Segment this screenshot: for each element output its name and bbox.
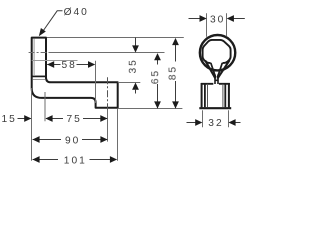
svg-text:32: 32 [208,118,223,129]
extension line left edge [31,88,33,161]
base inner bold line right [224,84,226,107]
mid reference line dashed part [29,52,49,54]
holder stem right leg [218,60,230,78]
dimension 85 [168,38,179,109]
svg-text:30: 30 [210,14,225,25]
flange inner thin line [33,79,46,81]
bottom reference line [118,108,183,110]
extension line flange right edge [44,92,46,121]
flange inner bold line [32,75,46,77]
svg-text:101: 101 [64,155,87,166]
dimension 65 [150,53,161,109]
holder slot left edge [211,63,216,77]
top reference line [47,37,184,39]
holder ring octagonal bore [203,40,231,63]
svg-text:58: 58 [62,60,77,71]
dimension 32 [187,118,241,129]
dimension 35 [128,38,139,94]
base block top edge [201,83,230,85]
holder ring outer circle (front view) [200,35,235,70]
leader line diameter 40 [42,11,63,33]
base block left edge [201,83,203,107]
extension line 75-90 [107,110,109,142]
holder neck crossbar [215,79,219,81]
extension line 101 [117,109,119,161]
outlet center line [107,77,109,109]
holder neck right [217,75,219,85]
svg-text:90: 90 [65,135,80,146]
dimension 101 [32,155,117,166]
extension line 30 right [226,13,228,36]
holder neck left [214,75,216,85]
holder slot right edge [218,63,223,77]
svg-text:65: 65 [150,69,161,84]
wall flange and elbow body outline (side view) [32,38,118,108]
base inner thin line right [222,84,224,107]
svg-text:75: 75 [67,114,82,125]
holder stem left leg [205,61,215,79]
tube top extension line [118,82,141,84]
base block right edge [228,83,230,107]
svg-text:Ø40: Ø40 [64,7,89,18]
extension line 32 left [202,110,204,127]
dimension 58 [47,60,95,71]
svg-text:85: 85 [168,65,179,80]
thin feature line [32,60,78,62]
extension line 32 right [228,110,230,127]
base block bottom lip [199,107,231,109]
dimension 75 [45,114,107,125]
extension line 58 [95,61,97,103]
svg-text:15: 15 [2,114,17,125]
base inner bold line left [204,84,206,107]
base inner thin line left [207,84,209,107]
dimension 15 [2,114,32,125]
extension line 30 left [206,13,208,37]
dimension 30 [189,14,245,25]
mid reference line [49,52,165,54]
svg-text:35: 35 [128,58,139,73]
dimension 90 [32,135,107,146]
flange inner vertical line [33,39,35,76]
